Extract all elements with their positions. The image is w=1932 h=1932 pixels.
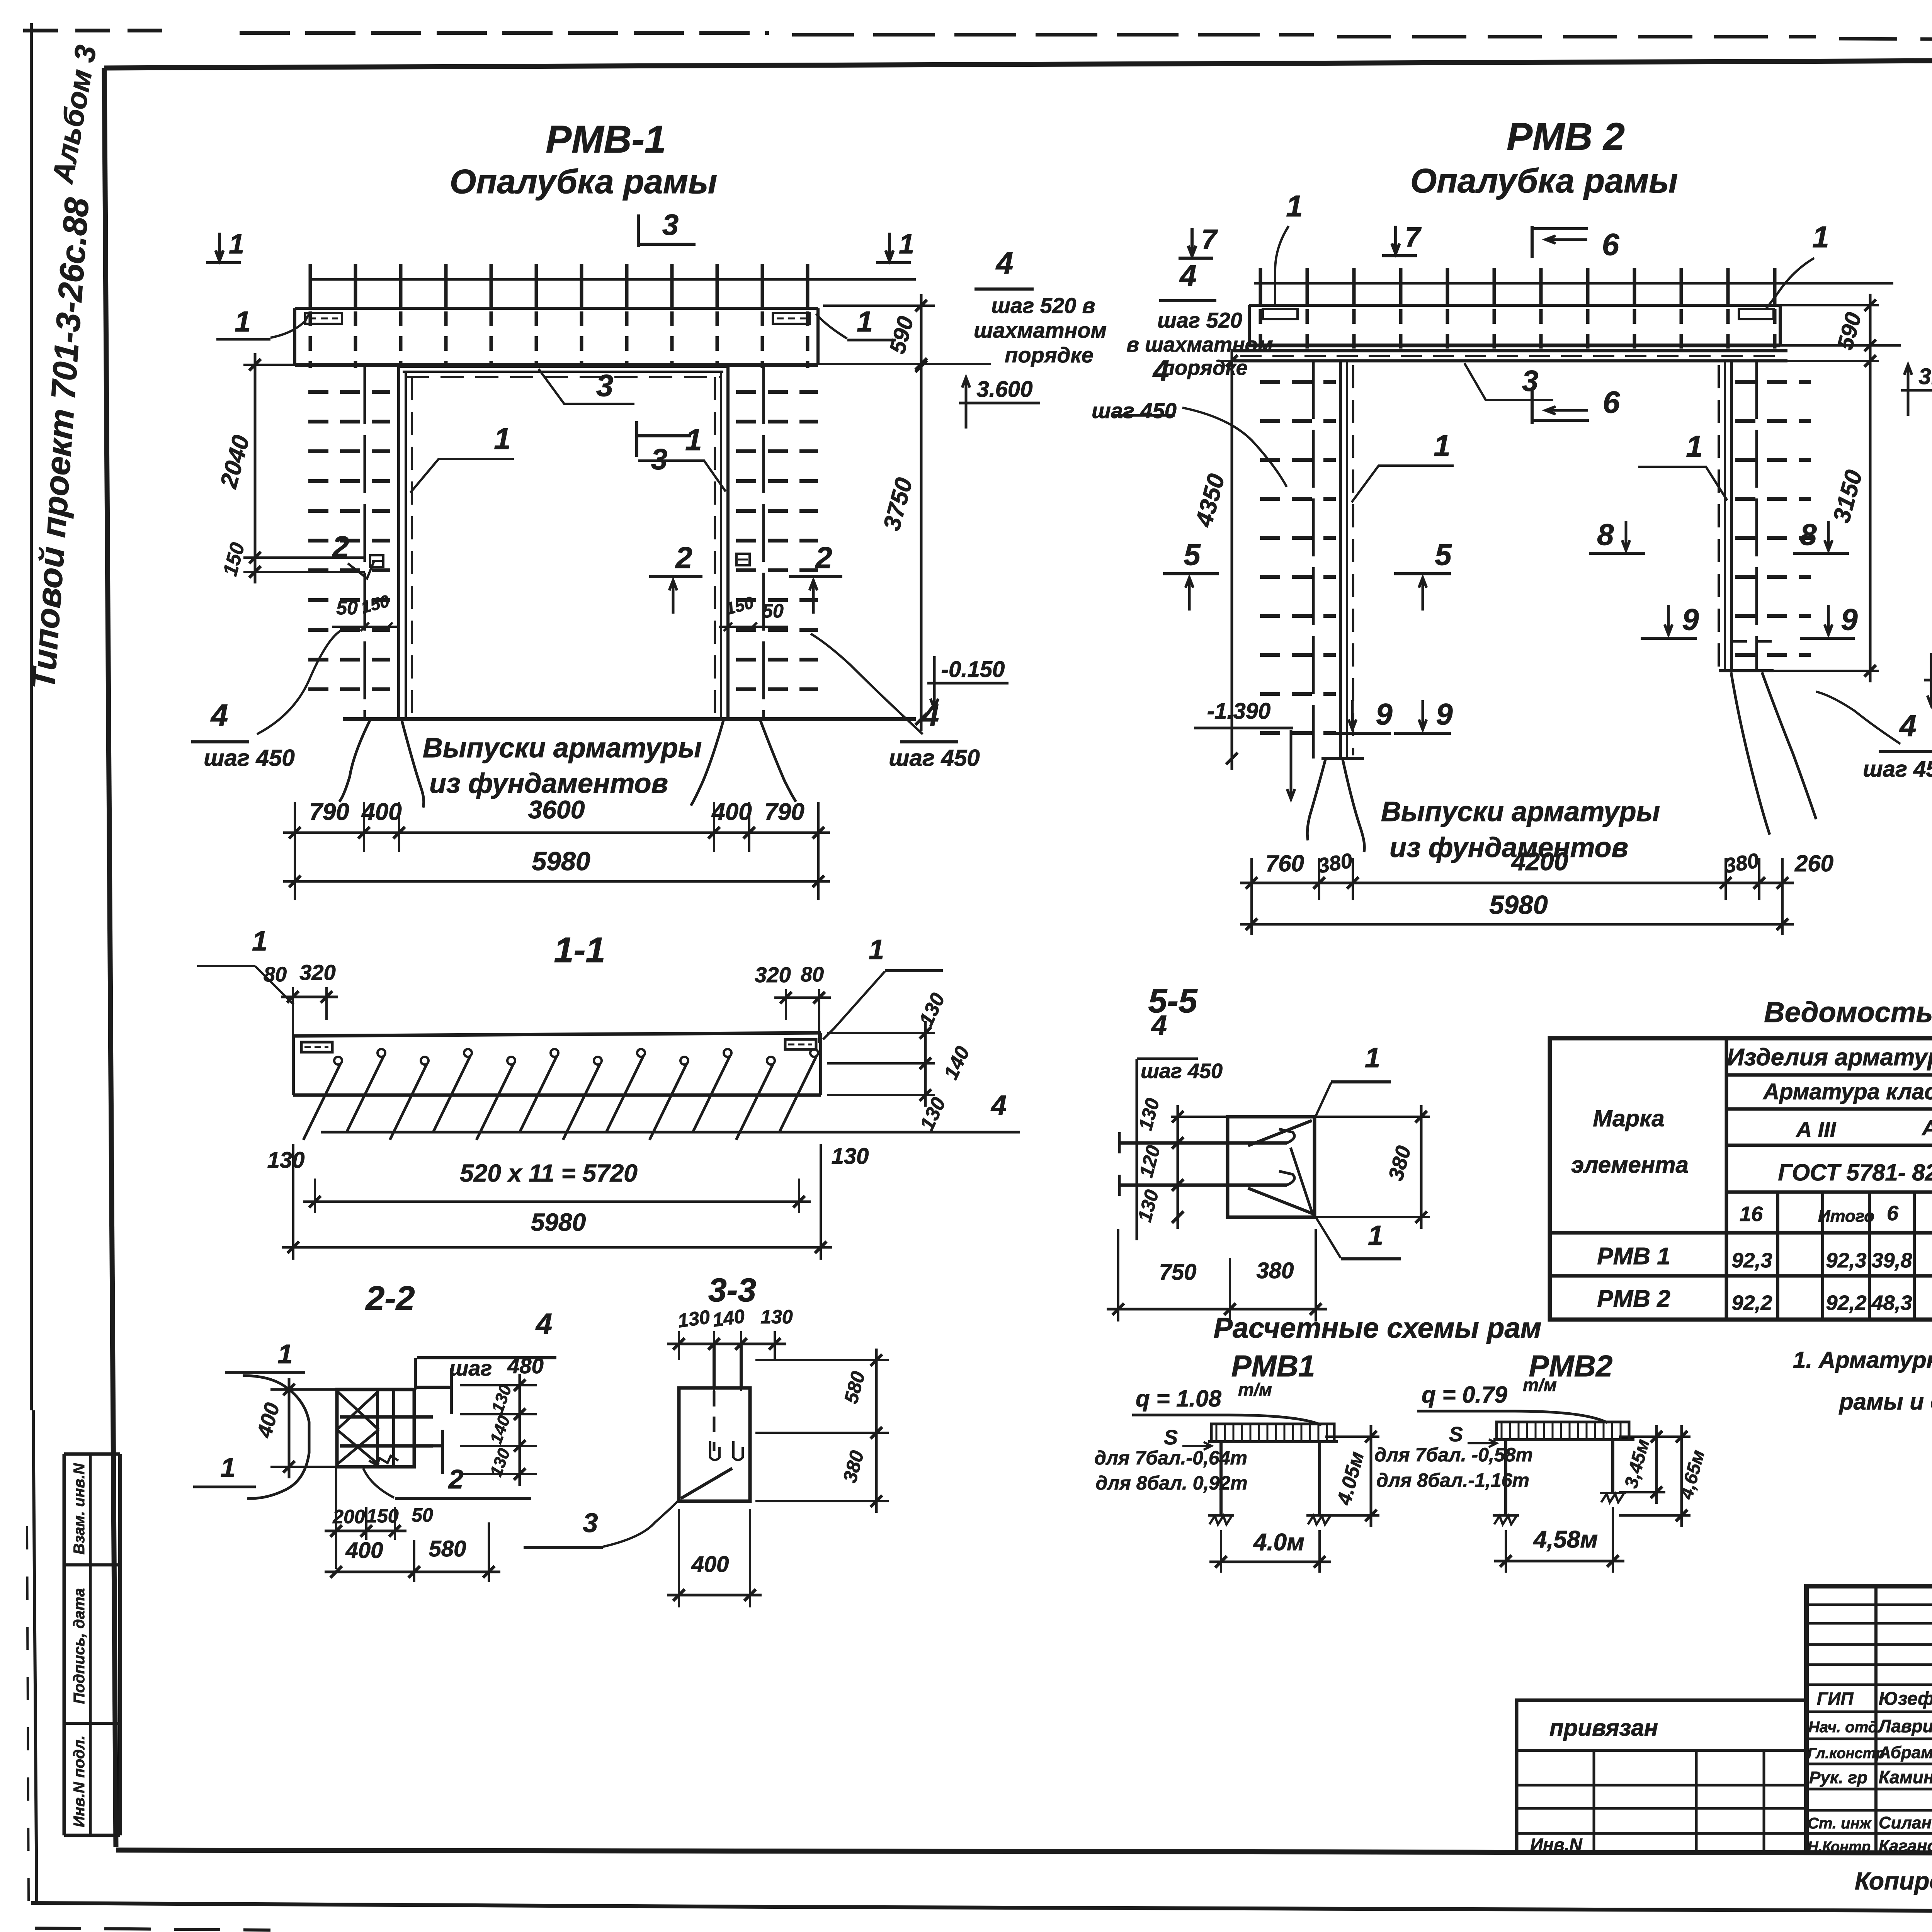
section 3-3 diagonal: [681, 1468, 732, 1498]
svg-text:2-2: 2-2: [365, 1279, 415, 1317]
svg-text:шаг 450: шаг 450: [1863, 757, 1932, 782]
svg-text:3-3: 3-3: [708, 1272, 756, 1309]
svg-text:q = 0.79: q = 0.79: [1422, 1382, 1507, 1408]
svg-text:1: 1: [1286, 189, 1303, 223]
svg-text:2: 2: [675, 541, 692, 575]
RMV-2 section mark 6 middle: [1531, 388, 1534, 424]
sheet left edge line: [30, 23, 33, 1410]
svg-text:Абрамовский: Абрамовский: [1878, 1743, 1932, 1762]
svg-text:750: 750: [1159, 1260, 1197, 1285]
scheme 1 load strip: [1211, 1424, 1334, 1442]
RMV-1 section mark 3 top: [637, 214, 640, 247]
svg-text:4200: 4200: [1511, 847, 1568, 876]
svg-text:шаг 450: шаг 450: [889, 745, 980, 771]
svg-text:4: 4: [921, 698, 939, 732]
svg-text:РМВ 1: РМВ 1: [1597, 1243, 1670, 1270]
svg-text:4,58м: 4,58м: [1533, 1526, 1598, 1553]
svg-text:2: 2: [448, 1464, 464, 1494]
svg-text:3: 3: [662, 209, 679, 241]
svg-text:1: 1: [229, 229, 244, 260]
svg-text:3.000: 3.000: [1918, 364, 1932, 389]
svg-text:для 8бал.-1,16т: для 8бал.-1,16т: [1376, 1469, 1529, 1491]
section 1-1 diagonal tie bars: [334, 1057, 342, 1065]
section 3-3 inner dashed bars: [713, 1391, 716, 1451]
RMV-1 opening formwork top: [398, 365, 728, 368]
svg-text:50: 50: [762, 600, 784, 622]
RMV-1 elevation mark -0.150: [927, 682, 1009, 685]
section 1-1 dim 5980: [820, 1213, 822, 1260]
svg-text:Выпуски арматуры: Выпуски арматуры: [423, 733, 702, 764]
section 5-5 square outline: [1228, 1117, 1315, 1217]
scheme 1 supports: [1209, 1516, 1232, 1524]
svg-text:Взам. инв.N: Взам. инв.N: [71, 1463, 88, 1554]
svg-text:5980: 5980: [531, 1208, 586, 1236]
svg-text:130: 130: [832, 1144, 869, 1169]
RMV-2 section mark 9 right: [1800, 637, 1855, 640]
svg-text:6: 6: [1887, 1202, 1899, 1225]
svg-text:РМВ-1: РМВ-1: [546, 118, 666, 161]
svg-text:1: 1: [1368, 1220, 1383, 1251]
table vertical lines: [1725, 1038, 1728, 1320]
title block signature table thin rows: [1806, 1604, 1932, 1606]
RMV-1 top beam outline: [295, 307, 818, 310]
RMV-1 left dim 2040 and 150: [243, 364, 298, 366]
RMV-1 label 3 with leader: [539, 369, 634, 404]
RMV-1 right anchor plate: [736, 554, 750, 565]
svg-text:для 7бал.-0,64т: для 7бал.-0,64т: [1094, 1447, 1247, 1469]
svg-text:400: 400: [711, 799, 752, 825]
svg-text:порядке: порядке: [1162, 356, 1248, 379]
RMV-1 ground line: [343, 717, 916, 721]
svg-text:шаг 520 в: шаг 520 в: [991, 293, 1095, 318]
svg-text:5980: 5980: [1489, 890, 1548, 920]
svg-text:1: 1: [857, 305, 873, 338]
svg-text:760: 760: [1265, 850, 1304, 876]
RMV-2 elevation mark -0.150 right: [1924, 679, 1932, 682]
RMV-2 top tie line: [1254, 282, 1893, 285]
drawing frame border: [104, 58, 1932, 68]
table header horizontal lines: [1726, 1073, 1932, 1077]
RMV-2 section mark 9 mid: [1394, 732, 1451, 735]
svg-text:1: 1: [685, 423, 702, 457]
RMV-2 section mark 6 top: [1531, 226, 1534, 258]
svg-text:А I: А I: [1921, 1116, 1932, 1140]
RMV-2 right dim 3150: [1869, 349, 1872, 682]
section 3-3 square outline: [679, 1388, 750, 1501]
section 5-5 diagonal bars inside: [1248, 1121, 1312, 1146]
RMV-2 section mark 9 mid-right: [1641, 637, 1697, 640]
svg-text:элемента: элемента: [1571, 1152, 1689, 1178]
svg-text:для 7бал. -0,58т: для 7бал. -0,58т: [1374, 1444, 1533, 1466]
scheme 1 dim 4.05m: [1370, 1425, 1372, 1527]
svg-text:привязан: привязан: [1549, 1715, 1658, 1741]
svg-text:1: 1: [221, 1452, 236, 1483]
svg-text:из фундаментов: из фундаментов: [1389, 832, 1628, 863]
RMV-2 left dim 4350: [1231, 349, 1233, 770]
svg-text:130: 130: [676, 1306, 711, 1332]
svg-text:Опалубка рамы: Опалубка рамы: [1410, 162, 1678, 200]
svg-text:S: S: [1164, 1426, 1178, 1449]
section 3-3 protruding formwork: [713, 1344, 716, 1388]
RMV-2 break lines under columns: [1307, 760, 1325, 840]
RMV-2 bottom dim 5980: [1250, 900, 1253, 935]
scheme 2 frame: [1493, 1438, 1634, 1441]
svg-text:Лавриненко: Лавриненко: [1878, 1716, 1932, 1736]
RMV-2 lower band formwork: [1234, 349, 1787, 352]
svg-text:4: 4: [1179, 259, 1196, 293]
table row line RMV1/RMV2: [1550, 1274, 1932, 1278]
svg-text:ГОСТ 5781- 82*: ГОСТ 5781- 82*: [1778, 1160, 1932, 1185]
svg-text:400: 400: [691, 1552, 729, 1577]
svg-text:5: 5: [1435, 537, 1452, 571]
section 1-1 bottom tie line: [321, 1131, 848, 1134]
RMV-2 label 3 with leader: [1464, 363, 1553, 400]
svg-text:Арматура класса: Арматура класса: [1762, 1079, 1932, 1104]
svg-text:порядке: порядке: [1005, 343, 1094, 367]
svg-text:6: 6: [1603, 385, 1620, 419]
svg-text:4.0м: 4.0м: [1253, 1529, 1304, 1556]
svg-text:1: 1: [235, 305, 251, 338]
svg-text:3: 3: [1522, 365, 1538, 398]
svg-text:2: 2: [332, 530, 349, 564]
scheme 2 dims 3.45m 4.65m: [1655, 1425, 1658, 1504]
RMV-2 section mark 8 right: [1793, 552, 1849, 555]
margin small boxes strip: [63, 1454, 66, 1835]
svg-text:Н.Контр: Н.Контр: [1808, 1839, 1871, 1855]
svg-text:шаг 450: шаг 450: [204, 745, 295, 771]
svg-text:РМВ 2: РМВ 2: [1507, 115, 1625, 158]
section 2-2 inner diagonals: [337, 1391, 379, 1430]
svg-text:Расчетные схемы рам: Расчетные схемы рам: [1214, 1312, 1542, 1344]
RMV-2 left column foot line: [1321, 757, 1364, 760]
section 2-2 vertical bars: [376, 1391, 379, 1465]
svg-text:Итого: Итого: [1818, 1207, 1874, 1226]
RMV-2 label 1 mid left leader: [1352, 466, 1454, 502]
section 5-5 right dim 380: [1315, 1116, 1430, 1118]
svg-text:1: 1: [494, 422, 510, 456]
RMV-2 right jamb formwork: [1730, 361, 1733, 671]
svg-text:Рук. гр: Рук. гр: [1809, 1768, 1867, 1787]
svg-text:Подпись, дата: Подпись, дата: [71, 1588, 88, 1704]
RMV-1 bottom dim chain 790 400 3600 400 790: [294, 802, 296, 852]
svg-text:4: 4: [1152, 354, 1169, 387]
section 3-3 right dims 580 380: [755, 1359, 889, 1361]
RMV-1 section mark 2 middle: [649, 575, 702, 578]
RMV-2 section mark 9 left: [1335, 732, 1391, 735]
svg-text:1: 1: [1365, 1043, 1380, 1073]
RMV-1 right dim 3750: [920, 355, 923, 731]
section 2-2 bottom hatch: [369, 1456, 398, 1465]
svg-text:3.600: 3.600: [976, 377, 1032, 402]
svg-text:Марка: Марка: [1593, 1105, 1664, 1131]
RMV-2 right column rebar dashes: [1735, 380, 1811, 384]
RMV-2 label 1 mid right leader: [1638, 467, 1727, 500]
svg-text:80: 80: [801, 963, 824, 986]
svg-text:48,3: 48,3: [1871, 1291, 1912, 1315]
svg-text:Изделия арматурные: Изделия арматурные: [1727, 1044, 1932, 1071]
svg-text:Кагановская: Кагановская: [1879, 1837, 1932, 1855]
svg-text:-0.150: -0.150: [941, 657, 1005, 682]
svg-text:6: 6: [1602, 227, 1619, 262]
svg-text:шаг: шаг: [449, 1356, 492, 1380]
RMV-1 top tie line: [309, 278, 916, 281]
svg-text:520 x 11 = 5720: 520 x 11 = 5720: [460, 1159, 638, 1187]
section 1-1 right dims 130 140 130: [827, 1032, 935, 1034]
svg-text:320: 320: [755, 963, 791, 987]
section 2-2 angle piece bottom right: [406, 1444, 442, 1447]
RMV-2 section mark 5 mid: [1394, 572, 1451, 575]
RMV-2 right column outer edge: [1755, 361, 1758, 671]
svg-text:16: 16: [1740, 1202, 1763, 1226]
section 2-2 angle piece top right: [414, 1358, 417, 1389]
svg-text:Выпуски арматуры: Выпуски арматуры: [1381, 796, 1660, 827]
svg-text:92,3: 92,3: [1731, 1249, 1772, 1272]
RMV-1 section mark 1 top right: [876, 261, 911, 264]
section 2-2 break shape left: [243, 1376, 309, 1498]
RMV-1 left column rebar dashes: [308, 390, 390, 394]
scheme 1 frame: [1208, 1440, 1338, 1443]
svg-text:92,2: 92,2: [1826, 1291, 1866, 1315]
RMV-2 beam left embedded plate: [1263, 309, 1298, 319]
table outer border: [1550, 1038, 1932, 1320]
RMV-1 section mark 1 top left: [206, 261, 241, 264]
svg-text:3: 3: [583, 1508, 598, 1538]
svg-text:1: 1: [1812, 220, 1829, 254]
svg-text:130: 130: [267, 1148, 305, 1173]
svg-text:т/м: т/м: [1523, 1375, 1557, 1395]
RMV-1 left column outer edge: [364, 366, 366, 719]
svg-text:5: 5: [1184, 537, 1201, 571]
svg-text:из фундаментов: из фундаментов: [429, 768, 668, 799]
svg-text:Ст. инж: Ст. инж: [1808, 1815, 1872, 1832]
svg-text:2: 2: [815, 541, 832, 575]
svg-text:7: 7: [1405, 222, 1422, 253]
svg-text:580: 580: [429, 1536, 466, 1561]
svg-text:-1.390: -1.390: [1207, 699, 1270, 724]
svg-text:S: S: [1449, 1423, 1463, 1446]
svg-text:9: 9: [1436, 697, 1453, 731]
svg-text:8: 8: [1800, 517, 1817, 551]
svg-text:Копировала: Копировала: [1855, 1867, 1932, 1895]
svg-text:шахматном: шахматном: [974, 318, 1107, 342]
RMV-1 section mark 3 inner: [635, 421, 638, 457]
RMV-1 beam rebar ticks: [309, 264, 312, 309]
svg-text:1. Арматурные сечения 2-2...6: 1. Арматурные сечения 2-2...6-6,8-8,9-9 …: [1793, 1347, 1932, 1373]
RMV-1 section mark 2 right: [789, 575, 842, 578]
svg-text:1: 1: [252, 926, 267, 957]
section 1-1 right plate: [785, 1039, 816, 1049]
svg-text:т/м: т/м: [1238, 1379, 1272, 1400]
sheet top edge dashed line: [23, 29, 178, 32]
svg-text:Нач. отд: Нач. отд: [1808, 1719, 1878, 1736]
svg-text:5980: 5980: [532, 847, 590, 876]
svg-text:РМВ 2: РМВ 2: [1597, 1286, 1670, 1312]
svg-text:50: 50: [412, 1504, 433, 1526]
svg-text:ГИП: ГИП: [1817, 1689, 1854, 1709]
svg-text:92,2: 92,2: [1731, 1291, 1772, 1315]
RMV-1 right dim 590: [823, 304, 935, 307]
RMV-2 bottom dim chain 760 380 4200 380 260: [1250, 858, 1253, 900]
RMV-2 left column outer edge: [1312, 361, 1315, 759]
svg-text:50: 50: [336, 597, 358, 619]
RMV-2 right column foot: [1719, 669, 1774, 672]
RMV-2 section mark 5 left: [1163, 572, 1219, 575]
RMV-1 elevation mark 3.600: [959, 402, 1040, 405]
svg-text:для 8бал. 0,92т: для 8бал. 0,92т: [1095, 1472, 1247, 1494]
svg-text:400: 400: [361, 799, 401, 825]
svg-text:790: 790: [309, 799, 349, 825]
svg-text:260: 260: [1794, 850, 1833, 876]
svg-text:1: 1: [899, 229, 914, 260]
svg-text:Гл.констр: Гл.констр: [1808, 1745, 1885, 1762]
svg-text:92,3: 92,3: [1826, 1249, 1866, 1272]
svg-text:4: 4: [1151, 1010, 1167, 1041]
scheme 2 load strip: [1497, 1422, 1629, 1440]
svg-text:4: 4: [210, 698, 228, 732]
svg-text:39,8: 39,8: [1871, 1249, 1912, 1272]
section 2-2 column square: [337, 1389, 414, 1467]
svg-text:Юзефович: Юзефович: [1879, 1689, 1932, 1709]
sheet bottom edge line: [31, 1903, 773, 1907]
RMV-2 beam rebar ticks: [1259, 268, 1262, 307]
table header-data separator line: [1550, 1231, 1932, 1235]
RMV-2 left jamb formwork: [1339, 361, 1342, 759]
svg-text:Ведомость расхода стали РМВ: Ведомость расхода стали РМВ1, РМВ2: [1764, 996, 1932, 1028]
svg-text:1-1: 1-1: [554, 930, 605, 970]
svg-text:1: 1: [1434, 429, 1450, 463]
RMV-2 elevation mark 3.000: [1901, 389, 1932, 392]
RMV-2 section mark 7 top mid: [1382, 254, 1417, 257]
svg-text:q = 1.08: q = 1.08: [1136, 1386, 1221, 1412]
svg-text:3: 3: [596, 368, 614, 403]
svg-text:шаг 520: шаг 520: [1157, 308, 1242, 332]
svg-text:140: 140: [711, 1305, 746, 1331]
RMV-2 beam right embedded plate: [1739, 309, 1774, 319]
svg-text:790: 790: [764, 799, 804, 825]
RMV-1 break lines under columns: [339, 721, 370, 802]
svg-text:Силантьева: Силантьева: [1879, 1813, 1932, 1832]
svg-text:4: 4: [995, 246, 1014, 280]
title block outer border: [1806, 1586, 1932, 1853]
svg-text:130: 130: [760, 1306, 793, 1328]
RMV-1 beam left embedded plate: [305, 313, 342, 324]
privyazan box: [1517, 1700, 1806, 1853]
section 2-2 right dims 130 140 130: [460, 1384, 537, 1386]
svg-text:РМВ1: РМВ1: [1231, 1349, 1315, 1383]
RMV-2 right dim 590: [1869, 294, 1872, 357]
svg-text:1: 1: [869, 934, 884, 965]
RMV-1 bottom dim 5980: [294, 852, 296, 900]
svg-text:в шахматном: в шахматном: [1126, 333, 1273, 356]
svg-text:Каминская: Каминская: [1879, 1767, 1932, 1787]
section 5-5 bars entering from left: [1119, 1141, 1287, 1145]
svg-text:1: 1: [1686, 429, 1702, 463]
svg-text:А III: А III: [1796, 1117, 1837, 1141]
section 1-1 left plate: [301, 1042, 332, 1052]
scheme 2 supports: [1494, 1516, 1517, 1524]
svg-text:7: 7: [1201, 224, 1218, 255]
svg-text:4: 4: [990, 1090, 1007, 1121]
RMV-2 left column rebar dashes: [1260, 380, 1336, 384]
svg-text:9: 9: [1376, 697, 1393, 731]
svg-text:шаг 450: шаг 450: [1092, 398, 1177, 423]
RMV-1 label 1 right with leader: [638, 461, 726, 492]
RMV-1 left jamb formwork: [397, 366, 400, 719]
svg-text:8: 8: [1597, 517, 1614, 551]
svg-text:шаг 450: шаг 450: [1141, 1060, 1223, 1083]
RMV-1 right column outer edge: [762, 366, 765, 719]
svg-text:Инв.N подл.: Инв.N подл.: [71, 1735, 88, 1827]
svg-text:9: 9: [1682, 602, 1699, 636]
svg-text:480: 480: [507, 1354, 543, 1378]
svg-text:4: 4: [535, 1308, 552, 1340]
svg-text:320: 320: [299, 960, 335, 985]
svg-text:380: 380: [1257, 1258, 1294, 1283]
svg-text:400: 400: [345, 1538, 383, 1563]
RMV-1 label 1 left with leader: [410, 459, 514, 493]
svg-text:Опалубка рамы: Опалубка рамы: [450, 162, 717, 201]
RMV-1 right column rebar dashes: [736, 390, 818, 394]
svg-text:9: 9: [1841, 602, 1858, 636]
RMV-1 beam right embedded plate: [773, 313, 810, 324]
RMV-1 left anchor plate: [370, 555, 383, 567]
svg-text:3600: 3600: [528, 795, 585, 824]
svg-text:80: 80: [264, 963, 287, 986]
svg-text:4: 4: [1899, 709, 1916, 743]
RMV-2 top beam outline: [1249, 304, 1780, 307]
RMV-1 right jamb formwork: [726, 366, 730, 719]
svg-text:Инв.N: Инв.N: [1530, 1835, 1582, 1855]
RMV-2 section mark 7 top left: [1179, 257, 1213, 260]
RMV-2 section mark 8 mid: [1589, 552, 1645, 555]
section 2-2 horizontal bars: [340, 1415, 433, 1419]
svg-text:рамы и общие примечания см: рамы и общие примечания см. лист 124.: [1838, 1389, 1932, 1415]
section 1-1 beam outline: [293, 1033, 821, 1036]
title block signature table verticals: [1874, 1586, 1878, 1853]
svg-text:1: 1: [278, 1339, 293, 1369]
